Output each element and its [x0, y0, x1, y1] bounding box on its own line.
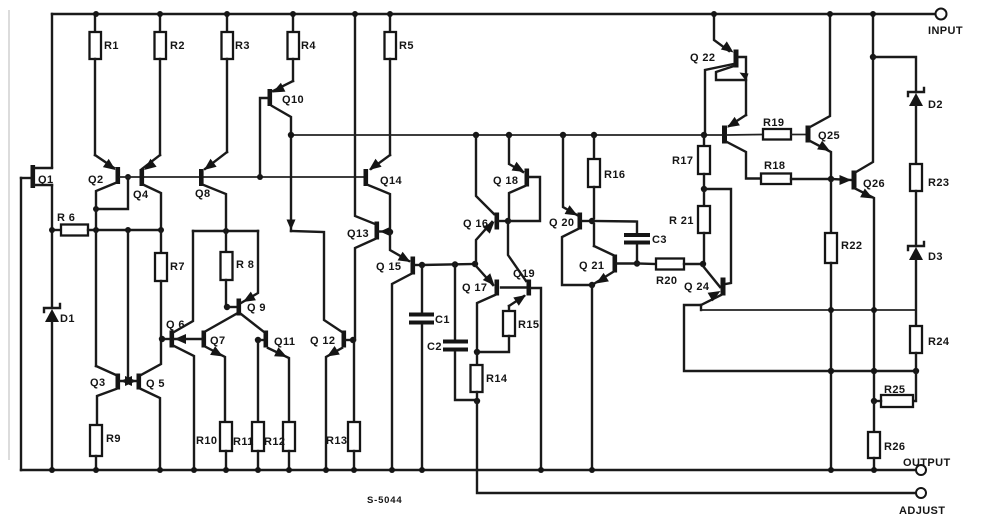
wire Q24 collector loop	[704, 189, 731, 284]
resistor R12	[264, 422, 295, 473]
svg-text:ADJUST: ADJUST	[899, 505, 945, 517]
transistor Q18	[493, 135, 540, 221]
wire column x128 down to Q3/Q5 base	[127, 230, 129, 381]
transistor Q20	[549, 135, 595, 285]
transistor Q22	[690, 11, 749, 135]
svg-text:Q19: Q19	[513, 268, 535, 280]
wire bias column to R13	[353, 343, 355, 422]
resistor R24	[910, 260, 950, 374]
svg-text:R23: R23	[928, 177, 949, 189]
svg-text:C3: C3	[652, 234, 667, 246]
capacitor C2	[427, 264, 476, 400]
svg-text:R22: R22	[841, 240, 862, 252]
svg-text:R24: R24	[928, 336, 950, 348]
svg-text:Q4: Q4	[133, 189, 149, 201]
svg-text:R2: R2	[170, 40, 185, 52]
junction dot rail x160	[157, 11, 163, 17]
INPUT terminal	[928, 9, 963, 38]
wire top supply rail	[52, 13, 935, 15]
resistor R7	[155, 230, 185, 339]
junction dot rail x52	[49, 467, 55, 473]
junction dot rail x392	[389, 467, 395, 473]
svg-text:R12: R12	[264, 436, 285, 448]
svg-text:R 21: R 21	[669, 215, 694, 227]
transistor Q16	[463, 135, 511, 264]
wire D1 column upper	[51, 230, 53, 307]
resistor R10	[196, 422, 232, 473]
svg-text:R11: R11	[233, 436, 254, 448]
wire left column from rail to Q1	[51, 14, 53, 167]
svg-text:R 8: R 8	[236, 259, 254, 271]
transistor Q9 dual collector	[224, 231, 266, 332]
transistor Q25	[806, 11, 841, 179]
transistor Q26	[831, 11, 885, 401]
svg-text:R20: R20	[656, 275, 677, 287]
junction dot rail x293	[290, 11, 296, 17]
svg-text:Q 6: Q 6	[166, 319, 185, 331]
svg-text:Q11: Q11	[274, 336, 295, 348]
wire Q15 node row	[419, 261, 478, 268]
svg-text:Q 22: Q 22	[690, 52, 715, 64]
resistor R5	[385, 14, 414, 155]
svg-text:Q 17: Q 17	[462, 282, 487, 294]
svg-text:Q2: Q2	[88, 174, 103, 186]
wire Q6-Q7 emitter/base link	[174, 338, 201, 340]
transistor Q12	[310, 331, 356, 471]
svg-text:Q 18: Q 18	[493, 175, 518, 187]
transistor Q4	[133, 155, 161, 230]
svg-text:S-5044: S-5044	[367, 495, 402, 506]
resistor R21	[669, 189, 710, 267]
svg-text:Q14: Q14	[380, 175, 402, 187]
transistor Q8	[195, 152, 227, 231]
svg-text:D3: D3	[928, 251, 943, 263]
svg-text:Q 5: Q 5	[146, 378, 165, 390]
svg-text:Q10: Q10	[282, 94, 304, 106]
diode D3 (zener)	[908, 242, 943, 263]
junction dots output node rows	[828, 307, 877, 374]
transistor Q13	[347, 222, 391, 341]
svg-text:Q 24: Q 24	[684, 281, 710, 293]
OUTPUT terminal	[903, 457, 951, 475]
svg-text:Q8: Q8	[195, 188, 210, 200]
transistor Q24	[684, 266, 726, 305]
diode D1 (zener)	[44, 304, 75, 325]
resistor R4	[288, 14, 317, 81]
resistor R6	[49, 212, 164, 236]
junction dots rail left	[93, 467, 163, 473]
svg-text:R16: R16	[604, 169, 625, 181]
wire D2 feed from input rail	[873, 57, 916, 92]
svg-text:R15: R15	[518, 319, 539, 331]
svg-text:R14: R14	[486, 373, 508, 385]
svg-text:Q 20: Q 20	[549, 217, 574, 229]
svg-text:OUTPUT: OUTPUT	[903, 457, 951, 469]
resistor R1	[90, 14, 119, 155]
resistor R15	[477, 295, 539, 352]
svg-text:Q25: Q25	[818, 130, 840, 142]
wire Q1 gate column down to output rail	[20, 178, 22, 470]
resistor R17	[672, 135, 710, 192]
resistor R11	[233, 422, 264, 473]
ADJUST terminal	[899, 488, 945, 517]
transistor Q7	[202, 314, 237, 422]
transistor Q2	[88, 155, 120, 209]
resistor R22	[825, 179, 862, 473]
diode D2 (zener)	[908, 88, 943, 111]
transistor Q21	[579, 224, 637, 473]
resistor R16	[588, 135, 625, 218]
resistor R13	[326, 422, 360, 473]
svg-text:R1: R1	[104, 40, 119, 52]
svg-text:D2: D2	[928, 99, 943, 111]
capacitor C3	[592, 221, 667, 267]
junction dot rail x390	[387, 11, 393, 17]
wire bias column from rail	[352, 11, 375, 224]
svg-text:D1: D1	[60, 313, 75, 325]
svg-text:Q13: Q13	[347, 228, 369, 240]
transistor Q11	[255, 331, 296, 423]
junction dot rail x194	[191, 467, 197, 473]
capacitor C1	[409, 265, 450, 473]
resistor R25	[871, 371, 916, 407]
transistor Q17	[462, 266, 499, 355]
junction dot rail x95	[93, 11, 99, 17]
svg-text:Q 9: Q 9	[247, 302, 266, 314]
resistor R3	[222, 14, 250, 152]
svg-text:R26: R26	[884, 441, 905, 453]
resistor R19	[763, 117, 805, 140]
resistor R23	[910, 106, 949, 246]
wire column x96 down to Q3	[95, 230, 97, 366]
wire D1 to output rail	[51, 322, 53, 470]
resistor R2	[155, 14, 185, 155]
svg-text:Q3: Q3	[90, 377, 105, 389]
transistor Q19	[501, 221, 544, 473]
wire Q2 collector down to R6 row	[95, 209, 97, 231]
svg-text:Q 21: Q 21	[579, 260, 604, 272]
svg-text:R7: R7	[170, 261, 185, 273]
wire adjust column and rail	[477, 401, 916, 493]
transistor Q15	[376, 232, 422, 470]
junction dot rail x326	[323, 467, 329, 473]
wire Q10 emitter to Q12 collector	[291, 231, 342, 332]
svg-text:R 6: R 6	[57, 212, 75, 224]
resistor R20	[637, 259, 703, 288]
transistor Q3	[90, 366, 132, 425]
transistor Q23	[701, 115, 763, 179]
svg-text:R17: R17	[672, 155, 693, 167]
svg-text:R13: R13	[326, 435, 347, 447]
transistor Q5	[125, 342, 165, 470]
wire Q3-Q5 base	[120, 378, 137, 384]
svg-text:Q26: Q26	[863, 178, 885, 190]
wire bottom output rail	[21, 469, 916, 471]
wire Q24 emitter to output node	[684, 305, 916, 371]
svg-text:C1: C1	[435, 314, 450, 326]
svg-text:R5: R5	[399, 40, 414, 52]
wire base row Q2-Q4-Q8-Q14	[120, 174, 364, 180]
svg-text:Q7: Q7	[210, 335, 225, 347]
svg-text:R10: R10	[196, 435, 217, 447]
svg-text:INPUT: INPUT	[928, 25, 963, 37]
transistor Q6 dual collector	[159, 231, 194, 470]
scan edge artifact	[8, 10, 10, 460]
transistor Q14	[364, 155, 403, 235]
svg-text:C2: C2	[427, 341, 442, 353]
svg-text:R18: R18	[764, 160, 785, 172]
transistor Q10	[260, 81, 304, 231]
resistor R26	[868, 401, 905, 473]
svg-text:R4: R4	[301, 40, 316, 52]
resistor R8	[221, 231, 255, 306]
transistor Q1	[21, 165, 53, 188]
svg-text:R3: R3	[235, 40, 250, 52]
svg-text:R25: R25	[884, 384, 905, 396]
wire Q2 collector node L to bases	[93, 174, 131, 212]
resistor R18	[761, 160, 834, 184]
resistor R9	[90, 425, 121, 470]
wire Q1 down to R6 node	[51, 185, 53, 230]
junction dot rail x227	[224, 11, 230, 17]
wire long mid rail y135	[288, 132, 703, 138]
svg-text:Q 12: Q 12	[310, 335, 335, 347]
wire collector bus Q8/Q6/Q9	[193, 228, 258, 234]
svg-text:R9: R9	[106, 433, 121, 445]
svg-text:R19: R19	[763, 117, 784, 129]
svg-text:Q 15: Q 15	[376, 261, 401, 273]
resistor R14	[471, 352, 508, 404]
